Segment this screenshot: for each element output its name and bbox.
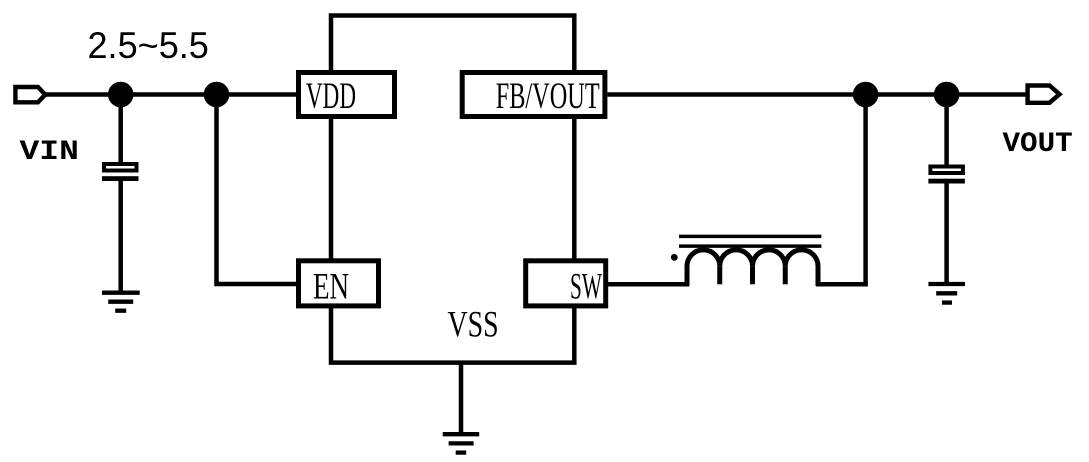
svg-text:SW: SW: [570, 265, 602, 307]
svg-text:VIN: VIN: [20, 137, 79, 168]
svg-text:VDD: VDD: [306, 76, 356, 117]
svg-text:FB/VOUT: FB/VOUT: [496, 75, 600, 116]
svg-text:2.5~5.5: 2.5~5.5: [88, 25, 209, 67]
svg-text:VOUT: VOUT: [1003, 128, 1073, 160]
svg-text:EN: EN: [313, 267, 349, 308]
svg-text:VSS: VSS: [448, 305, 499, 346]
